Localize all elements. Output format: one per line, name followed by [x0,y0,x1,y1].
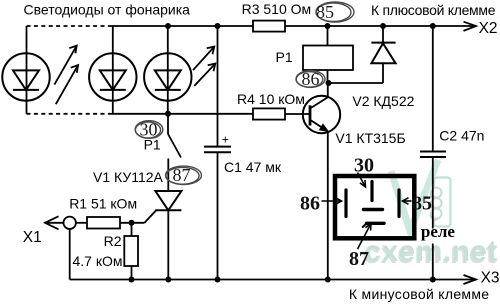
svg-text:Р1: Р1 [276,49,293,65]
arrow pin 30 [358,173,366,188]
LED D2 [89,26,136,114]
wire: R2 top lead [131,223,133,236]
wire: LED bottom rail dashed continuation (left) [27,113,111,115]
arrow pin 86 [322,198,342,205]
terminal X1 circle [63,217,75,229]
LED D1 emission arrows [54,46,78,105]
LED D3 [144,26,191,114]
relay coil P1 [303,26,353,83]
svg-text:87: 87 [349,248,369,270]
svg-text:86: 86 [300,193,320,215]
svg-text:V1 КТ315Б: V1 КТ315Б [335,130,405,146]
arrow pin 85 [403,198,412,205]
relay pin 86 bar [344,190,347,217]
LED D3 emission arrows [193,47,215,86]
svg-text:Х3: Х3 [481,270,500,287]
capacitor C1 [204,147,231,153]
relay pin 30 bar [370,182,373,201]
svg-text:Светодиоды от фонарика: Светодиоды от фонарика [24,2,191,18]
oval contact 87 [166,166,202,184]
wire: R2 bottom lead [131,266,133,280]
svg-text:С1 47 мк: С1 47 мк [224,159,282,175]
wire: X1 down to bottom rail [69,229,71,280]
junction node coil-diode-collector [326,80,332,86]
svg-text:86: 86 [302,69,320,89]
watermark cxem.net logo seal [430,178,450,227]
LED D1 [2,26,49,114]
svg-text:R4 10 кОм: R4 10 кОм [237,91,305,107]
wire: top rail dashed continuation (left) [27,25,111,27]
oval contact 30 [135,121,163,139]
svg-text:Х2: Х2 [479,20,498,37]
junction node gate-R1-R2 [129,220,135,226]
svg-text:C2 47n: C2 47n [439,128,484,144]
watermark ribbon [391,160,438,231]
svg-text:Х1: Х1 [23,229,42,246]
oval contact 85 [316,2,354,22]
thyristor V1 KU112A [145,159,182,280]
junction node LED rail [165,111,171,117]
terminal X1 arrow [45,216,64,229]
svg-text:V2 КД522: V2 КД522 [352,93,414,109]
oval contact 86 [296,71,325,88]
wire: coil bottom to diode anode [328,82,384,84]
junction node dots top rail [165,23,436,29]
relay contact blade 30-87 [168,134,181,158]
transistor V1 KT315 [303,83,340,280]
resistor R4 [253,108,285,119]
svg-text:реле: реле [421,222,456,241]
svg-text:87: 87 [173,165,191,185]
relay pin 85 bar [397,190,400,217]
junction node dots bottom rail [129,277,436,283]
wire: C1 branch vertical [217,26,219,147]
resistor R2 [124,236,138,266]
svg-text:85: 85 [412,193,432,215]
node: LED rail to contact [167,114,169,134]
svg-text:К минусовой клемме: К минусовой клемме [349,286,489,302]
relay pinout box [335,176,414,238]
svg-text:V1 КУ112А: V1 КУ112А [93,169,164,185]
wire: base wire [285,113,310,115]
resistor R3 [253,21,285,32]
wire: bottom rail [70,279,476,281]
relay pin 87 bar [363,223,384,227]
wire: C2 branch vertical [432,26,434,152]
diode V2 [371,26,395,83]
svg-text:85: 85 [316,2,334,22]
resistor R1 [87,217,120,229]
watermark cxem.net text [363,235,498,270]
terminal X2 arrow [464,22,477,31]
svg-text:Р1: Р1 [144,137,161,153]
svg-text:4.7 кОм: 4.7 кОм [73,253,123,269]
arrow pin 87 [358,224,372,250]
wire: LED bottom rail to R4 [110,113,253,115]
capacitor C2 [420,152,446,158]
wire: top rail [110,25,476,27]
label rele background [421,229,457,244]
wire: X1 to R1 [76,222,87,224]
svg-text:R3 510 Ом: R3 510 Ом [242,1,312,17]
svg-text:R2: R2 [104,233,122,249]
relay common bar [364,208,383,211]
svg-text:+: + [222,133,229,147]
svg-text:30: 30 [354,155,374,177]
wire: R1 to gate [120,222,145,224]
terminal X3 arrow [464,275,477,284]
svg-text:R1 51 кОм: R1 51 кОм [69,196,137,212]
svg-text:К плюсовой клемме: К плюсовой клемме [371,2,496,18]
